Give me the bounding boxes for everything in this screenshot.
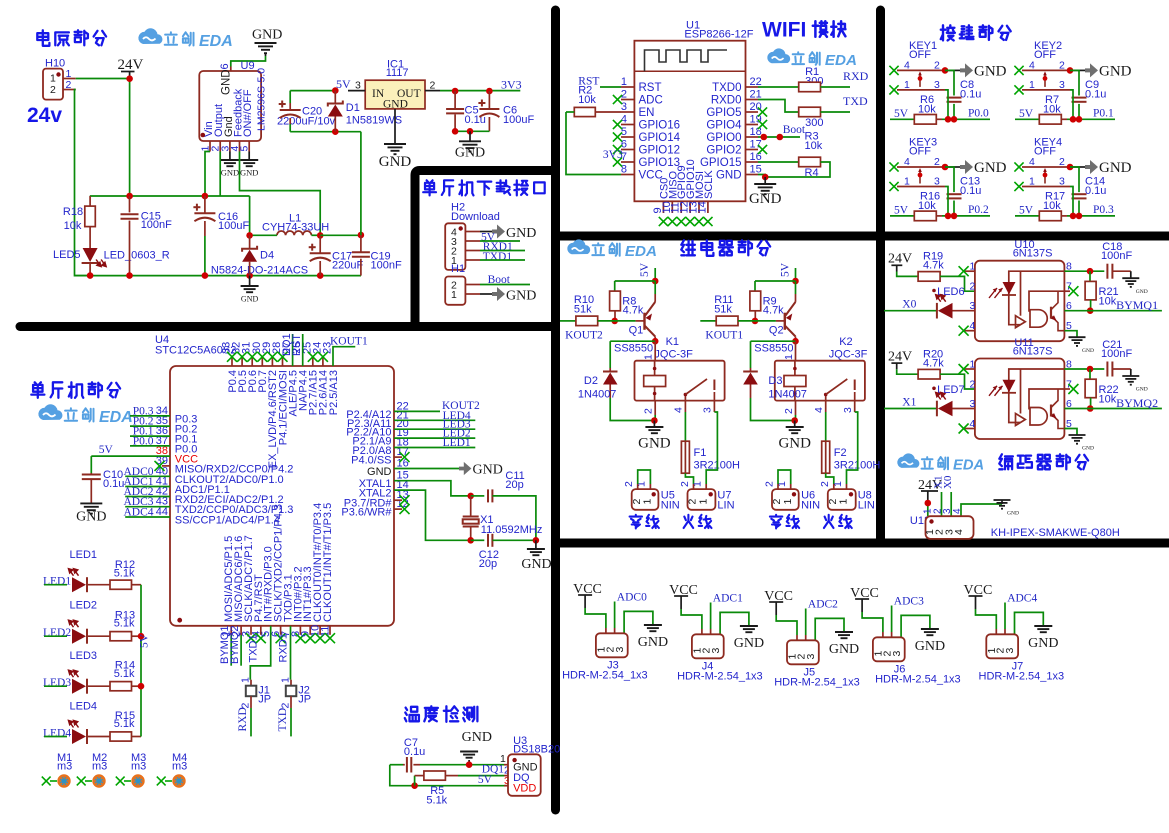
- svg-text:4: 4: [904, 59, 910, 71]
- wire DQ row: [458, 775, 504, 777]
- svg-text:LED1: LED1: [43, 576, 71, 588]
- svg-text:HDR-M-2.54_1x3: HDR-M-2.54_1x3: [677, 671, 763, 683]
- wire LED nets pins 21-18: [394, 419, 475, 421]
- svg-text:HDR-M-2.54_1x3: HDR-M-2.54_1x3: [875, 674, 961, 686]
- svg-text:K2: K2: [839, 336, 852, 348]
- wire VCC to J5: [776, 615, 797, 635]
- svg-text:3: 3: [842, 407, 854, 413]
- mcu ADC pin wires: [125, 475, 170, 477]
- svg-text:0.1u: 0.1u: [960, 185, 981, 197]
- svg-text:JQC-3F: JQC-3F: [829, 349, 868, 361]
- svg-text:4: 4: [953, 529, 965, 535]
- svg-text:LED3: LED3: [70, 650, 98, 662]
- svg-text:JP: JP: [298, 694, 311, 706]
- svg-text:6N137S: 6N137S: [1013, 345, 1053, 357]
- svg-text:TXD1: TXD1: [483, 251, 513, 263]
- svg-text:GND: GND: [974, 63, 1007, 79]
- svg-text:24V: 24V: [118, 57, 144, 73]
- svg-text:24V: 24V: [888, 252, 912, 267]
- label 火线 U7: [684, 515, 694, 528]
- no connect U10 pin1: [965, 270, 975, 272]
- svg-text:1: 1: [1029, 176, 1035, 188]
- svg-text:LED5: LED5: [53, 249, 81, 261]
- ground U10 pin5: [1064, 331, 1077, 337]
- svg-text:100nF: 100nF: [371, 260, 402, 272]
- ground arrow KEY3: [945, 166, 960, 168]
- svg-text:JQC-3F: JQC-3F: [654, 349, 693, 361]
- ground under C10: [80, 503, 102, 513]
- svg-text:F1: F1: [694, 447, 707, 459]
- wire Boot net: [758, 136, 800, 138]
- svg-text:10k: 10k: [64, 220, 82, 232]
- svg-text:GND: GND: [638, 436, 671, 452]
- svg-text:5V: 5V: [336, 77, 351, 91]
- svg-text:LED4: LED4: [43, 728, 71, 740]
- svg-text:GND: GND: [240, 168, 258, 178]
- svg-text:1: 1: [642, 499, 654, 505]
- svg-text:2: 2: [679, 481, 691, 487]
- svg-text:OFF: OFF: [909, 49, 931, 61]
- ground U9 pin3: [229, 152, 231, 160]
- svg-text:2: 2: [279, 703, 291, 709]
- svg-text:GND: GND: [1136, 289, 1148, 295]
- svg-text:ADC1: ADC1: [713, 593, 743, 605]
- svg-text:1: 1: [838, 499, 850, 505]
- svg-text:HDR-M-2.54_1x3: HDR-M-2.54_1x3: [774, 677, 860, 689]
- svg-text:3: 3: [934, 176, 940, 188]
- svg-text:5.1k: 5.1k: [426, 795, 447, 807]
- svg-text:ADC3: ADC3: [894, 596, 924, 608]
- svg-text:24V: 24V: [888, 349, 912, 364]
- svg-text:LED2: LED2: [70, 600, 98, 612]
- svg-text:20p: 20p: [479, 558, 497, 570]
- svg-text:WIFI: WIFI: [762, 19, 806, 42]
- label 零线 U6: [770, 515, 782, 529]
- svg-text:4: 4: [952, 508, 963, 514]
- ground under crystal: [535, 540, 537, 548]
- svg-text:4.7k: 4.7k: [623, 305, 644, 317]
- svg-text:GND: GND: [521, 557, 551, 572]
- svg-text:LED3: LED3: [43, 677, 71, 689]
- diode D3 1N4007: [750, 368, 752, 372]
- svg-text:14: 14: [696, 201, 708, 213]
- wire 3V3 net: [440, 90, 520, 92]
- wire U9 pin2 Output: [219, 152, 221, 197]
- section divider horizontal mid right: [556, 232, 1169, 241]
- svg-text:3: 3: [702, 407, 714, 413]
- svg-text:4: 4: [1029, 59, 1035, 71]
- svg-text:P2.5/A13: P2.5/A13: [328, 370, 340, 415]
- wire U12 pin4 to ground: [961, 504, 1002, 516]
- wire J3 ground: [624, 611, 653, 633]
- ground U9 pin5: [248, 152, 250, 160]
- svg-text:51k: 51k: [714, 304, 732, 316]
- connector J6 HDR-M-2.54_1x3: [873, 637, 905, 661]
- svg-text:P4.0/SS: P4.0/SS: [351, 455, 391, 467]
- svg-text:GPIO16: GPIO16: [639, 120, 681, 132]
- svg-text:D1: D1: [346, 102, 360, 114]
- svg-text:N5824-DO-214ACS: N5824-DO-214ACS: [211, 265, 308, 277]
- title 继电器部分: [681, 240, 695, 255]
- svg-text:K1: K1: [666, 336, 679, 348]
- svg-text:GPIO12: GPIO12: [639, 145, 681, 157]
- ground U11 pin5: [1064, 429, 1077, 435]
- svg-text:GND: GND: [915, 639, 945, 654]
- svg-text:LIN: LIN: [717, 500, 734, 512]
- wire DS18B20 gnd row: [420, 764, 504, 766]
- svg-text:m3: m3: [57, 761, 72, 773]
- svg-text:1: 1: [697, 499, 709, 505]
- wire U9 pin1 Vin: [205, 152, 210, 197]
- svg-text:EDA: EDA: [199, 33, 233, 50]
- svg-text:KOUT1: KOUT1: [330, 336, 368, 348]
- svg-text:2: 2: [783, 408, 795, 414]
- svg-text:RXD0: RXD0: [711, 95, 742, 107]
- svg-text:SCLK: SCLK: [703, 170, 715, 199]
- no connect U11 pin4: [965, 428, 975, 430]
- ground arrow KEY4: [1070, 166, 1085, 168]
- svg-text:RXD: RXD: [237, 707, 249, 731]
- relay K1 pin3 wire: [713, 401, 715, 412]
- logo lceda encoder section: [897, 453, 919, 467]
- svg-text:GND: GND: [749, 191, 782, 207]
- wire TXD from J2: [290, 708, 292, 736]
- svg-text:CLKOUT1/INT#/T1/P3.5: CLKOUT1/INT#/T1/P3.5: [322, 503, 334, 622]
- opto internals U11: [1009, 369, 1064, 426]
- ground U1: [764, 177, 766, 184]
- svg-text:LED1: LED1: [70, 549, 98, 561]
- wire C5 C6 ground: [455, 130, 489, 132]
- svg-text:11.0592MHz: 11.0592MHz: [481, 524, 543, 536]
- svg-text:KH-IPEX-SMAKWE-Q80H: KH-IPEX-SMAKWE-Q80H: [991, 527, 1120, 539]
- svg-text:2: 2: [430, 80, 436, 92]
- svg-text:1: 1: [279, 677, 291, 683]
- svg-text:X0: X0: [902, 299, 916, 311]
- svg-text:1: 1: [1029, 79, 1035, 91]
- svg-text:3: 3: [710, 648, 722, 654]
- svg-text:10k: 10k: [805, 140, 823, 152]
- svg-text:ADC4: ADC4: [1007, 593, 1037, 605]
- svg-text:0.1u: 0.1u: [404, 746, 425, 758]
- wire R3 to GND: [765, 162, 830, 177]
- svg-text:6N137S: 6N137S: [1013, 248, 1053, 260]
- ground under IC1: [394, 109, 396, 144]
- svg-text:2: 2: [643, 408, 655, 414]
- svg-text:SS8550: SS8550: [614, 343, 653, 355]
- svg-text:Q2: Q2: [769, 325, 784, 337]
- logo lceda mcu section: [38, 404, 62, 420]
- svg-text:GND: GND: [506, 226, 536, 241]
- svg-text:F2: F2: [834, 447, 847, 459]
- svg-text:10k: 10k: [578, 94, 596, 106]
- svg-text:5V: 5V: [1019, 205, 1034, 217]
- svg-text:100nF: 100nF: [1101, 250, 1132, 262]
- svg-text:GND: GND: [462, 730, 492, 745]
- svg-text:100uF: 100uF: [218, 220, 249, 232]
- wire U12 pin1 24V: [927, 500, 929, 516]
- svg-text:R18: R18: [63, 206, 83, 218]
- svg-text:GND: GND: [367, 466, 392, 478]
- svg-text:P0.0: P0.0: [133, 435, 154, 447]
- svg-text:EDA: EDA: [825, 52, 857, 69]
- wire C20 bottom to D1 anode: [290, 131, 361, 133]
- wire J5 ground: [815, 618, 844, 640]
- svg-text:1: 1: [904, 79, 910, 91]
- wire XTAL2 pin14: [394, 490, 471, 540]
- svg-text:4: 4: [673, 407, 685, 413]
- svg-text:6: 6: [219, 63, 231, 69]
- antenna trace inside U1: [634, 70, 745, 72]
- svg-text:GND: GND: [1136, 387, 1148, 393]
- svg-text:ADC2: ADC2: [808, 599, 838, 611]
- svg-text:1N4007: 1N4007: [578, 389, 617, 401]
- wire TXD1 to J1: [250, 626, 270, 680]
- wire VCC to J3: [585, 608, 606, 628]
- svg-text:4.7k: 4.7k: [763, 305, 784, 317]
- svg-text:GND: GND: [221, 168, 239, 178]
- connector J5 HDR-M-2.54_1x3: [787, 640, 819, 664]
- svg-text:ADC0: ADC0: [617, 592, 647, 604]
- svg-text:NIN: NIN: [661, 500, 680, 512]
- svg-text:D3: D3: [768, 375, 782, 387]
- svg-text:RST: RST: [291, 334, 303, 356]
- svg-text:3V3: 3V3: [603, 149, 623, 161]
- wire RST net: [600, 86, 621, 88]
- title 温度检测: [405, 707, 419, 722]
- svg-text:OFF: OFF: [1034, 146, 1056, 158]
- svg-text:GND: GND: [1082, 446, 1094, 452]
- wire BYMQ1 net: [1064, 310, 1162, 312]
- svg-text:Download: Download: [451, 211, 500, 223]
- svg-text:2: 2: [934, 59, 940, 71]
- wire KEY1 pin3 down: [945, 90, 948, 119]
- wire L1 right node to C19/D1: [320, 234, 361, 236]
- svg-text:GND: GND: [221, 69, 233, 95]
- wire BYMQ1 mcu pin1: [230, 626, 232, 635]
- title 按键部分: [941, 25, 955, 40]
- svg-text:3: 3: [614, 647, 626, 653]
- wire collector node Q1: [610, 340, 655, 342]
- svg-text:ON#/OFF: ON#/OFF: [242, 89, 254, 137]
- ground arrow KEY1: [945, 69, 960, 71]
- svg-text:GND: GND: [506, 289, 536, 304]
- wire VCC to J6: [862, 612, 883, 632]
- svg-text:GND: GND: [1099, 63, 1132, 79]
- svg-text:GND: GND: [778, 436, 811, 452]
- svg-text:Boot: Boot: [783, 124, 806, 136]
- U1 bottom pins: [662, 201, 664, 213]
- mcu left pin wires P0.x: [130, 415, 170, 417]
- svg-text:RXD: RXD: [843, 69, 869, 83]
- download box border: [415, 171, 555, 327]
- svg-text:3: 3: [1059, 79, 1065, 91]
- wire R2 to VCC 3V3: [566, 112, 621, 175]
- svg-text:4: 4: [813, 407, 825, 413]
- wire RXD from J1: [250, 708, 252, 736]
- svg-text:GPIO15: GPIO15: [700, 157, 742, 169]
- section divider vertical line 2: [876, 10, 885, 543]
- svg-text:EDA: EDA: [625, 243, 657, 260]
- svg-text:m3: m3: [92, 761, 107, 773]
- wire RXD1 to J2: [290, 626, 292, 680]
- svg-text:GND: GND: [383, 99, 408, 111]
- no connect U11 pin1: [965, 368, 975, 370]
- wire J7 ground: [1015, 612, 1044, 634]
- svg-text:GND: GND: [1099, 160, 1132, 176]
- svg-text:51k: 51k: [574, 304, 592, 316]
- svg-text:SS8550: SS8550: [754, 343, 793, 355]
- svg-text:3: 3: [934, 79, 940, 91]
- svg-text:2: 2: [66, 79, 72, 91]
- wire VCC to J7: [976, 609, 997, 629]
- svg-text:TXD: TXD: [277, 708, 289, 732]
- wire U9 pin4 Feedback: [240, 152, 321, 236]
- ground arrow KEY2: [1070, 69, 1085, 71]
- no connect U1 right pins: [758, 107, 767, 116]
- svg-text:KOUT2: KOUT2: [565, 330, 603, 342]
- svg-text:m3: m3: [172, 761, 187, 773]
- svg-text:Q1: Q1: [629, 325, 644, 337]
- svg-text:4: 4: [1029, 156, 1035, 168]
- svg-text:GND: GND: [829, 642, 859, 657]
- svg-text:1117: 1117: [386, 67, 409, 79]
- svg-text:X0: X0: [942, 475, 954, 489]
- ground arrow mcu pin 16: [394, 468, 459, 470]
- svg-text:ADC: ADC: [639, 95, 663, 107]
- wire U1 GND pin15: [758, 175, 765, 178]
- section divider vertical line 1: [551, 10, 560, 810]
- svg-text:1: 1: [904, 176, 910, 188]
- wire KOUT2 pin22: [394, 410, 440, 412]
- wire BYMQ2 mcu pin2: [240, 626, 242, 635]
- wire BYMQ2 net: [1064, 408, 1162, 410]
- svg-text:GND: GND: [638, 635, 668, 650]
- svg-text:BYMQ2: BYMQ2: [229, 625, 241, 664]
- svg-text:5V: 5V: [1019, 108, 1034, 120]
- wire 24V net: [76, 78, 130, 80]
- svg-text:BYMQ2: BYMQ2: [1116, 396, 1158, 410]
- no connect U1 pins: [613, 95, 622, 104]
- no connect U10 pin7: [1064, 290, 1070, 292]
- svg-text:ESP8266-12F: ESP8266-12F: [684, 29, 753, 41]
- svg-text:GPIO4: GPIO4: [706, 120, 742, 132]
- svg-text:5.1k: 5.1k: [114, 718, 135, 730]
- wire KEY2 pin3 down: [1070, 90, 1073, 119]
- no connect U10 pin4: [965, 330, 975, 332]
- relay K1 pin2 to ground: [654, 401, 656, 415]
- svg-text:24v: 24v: [27, 104, 62, 127]
- svg-text:TXD0: TXD0: [712, 82, 741, 94]
- wire C7 left to VDD row: [390, 765, 508, 786]
- svg-text:D4: D4: [260, 250, 274, 262]
- svg-text:1: 1: [451, 289, 457, 301]
- svg-text:2: 2: [623, 481, 635, 487]
- svg-text:5V: 5V: [139, 633, 151, 648]
- svg-text:0.1u: 0.1u: [1085, 89, 1106, 101]
- svg-text:GND: GND: [455, 146, 485, 161]
- logo lceda power section: [138, 28, 162, 44]
- no connect mcu pin 17: [394, 456, 402, 458]
- svg-text:100nF: 100nF: [141, 219, 172, 231]
- svg-text:RST: RST: [639, 82, 662, 94]
- label 火线 U8: [824, 515, 834, 528]
- svg-text:ADC4: ADC4: [123, 507, 153, 519]
- svg-text:P0.1: P0.1: [1093, 107, 1114, 119]
- svg-text:OFF: OFF: [1034, 49, 1056, 61]
- svg-text:LM2596S-5.0: LM2596S-5.0: [256, 68, 268, 131]
- svg-text:5V: 5V: [779, 262, 791, 277]
- wire XTAL1 pin15: [394, 481, 471, 496]
- svg-text:5.1k: 5.1k: [114, 618, 135, 630]
- svg-text:1: 1: [782, 499, 794, 505]
- connector J7 HDR-M-2.54_1x3: [986, 634, 1018, 658]
- svg-text:0.1u: 0.1u: [103, 478, 124, 490]
- wire U10 pin8: [1064, 270, 1104, 272]
- svg-text:20p: 20p: [505, 479, 523, 491]
- svg-text:RXD1: RXD1: [277, 633, 289, 662]
- svg-text:2: 2: [970, 379, 976, 391]
- svg-text:5: 5: [239, 146, 251, 152]
- svg-text:300: 300: [805, 117, 823, 129]
- svg-text:GPIO2: GPIO2: [706, 145, 741, 157]
- svg-text:GND: GND: [716, 170, 742, 182]
- wire collector node Q2: [751, 340, 796, 342]
- svg-text:100uF: 100uF: [503, 114, 534, 126]
- svg-text:5.1k: 5.1k: [114, 668, 135, 680]
- wire 5V rail LEDs: [140, 585, 142, 737]
- svg-text:LED2: LED2: [43, 627, 71, 639]
- section divider horizontal left: [20, 322, 556, 331]
- svg-text:2: 2: [50, 84, 56, 96]
- logo lceda wifi section: [767, 48, 790, 63]
- svg-text:P0.2: P0.2: [968, 204, 989, 216]
- svg-text:GND: GND: [1082, 348, 1094, 354]
- svg-text:GPIO13: GPIO13: [639, 157, 681, 169]
- svg-text:LED4: LED4: [70, 700, 98, 712]
- svg-text:100nF: 100nF: [1101, 348, 1132, 360]
- svg-text:4.7k: 4.7k: [923, 260, 944, 272]
- svg-text:GPIO14: GPIO14: [639, 132, 681, 144]
- svg-text:P0.3: P0.3: [1093, 204, 1114, 216]
- title 单片机下载接口: [423, 180, 436, 195]
- svg-text:5V: 5V: [478, 774, 493, 786]
- svg-text:GND: GND: [1007, 511, 1019, 517]
- svg-text:EN: EN: [639, 107, 655, 119]
- wire J4 ground: [720, 612, 749, 634]
- svg-text:TXD: TXD: [843, 94, 868, 108]
- svg-text:2: 2: [763, 481, 775, 487]
- relay K2 pin2 to ground: [795, 401, 797, 415]
- ground under C5 C6: [469, 131, 471, 140]
- svg-text:X1: X1: [902, 396, 916, 408]
- no connect mcu pin 39: [162, 465, 170, 467]
- svg-text:5.1k: 5.1k: [114, 567, 135, 579]
- svg-text:0.1u: 0.1u: [960, 89, 981, 101]
- wire RST mcu top: [302, 334, 304, 366]
- svg-text:1: 1: [783, 354, 795, 360]
- svg-text:1: 1: [239, 677, 251, 683]
- svg-text:4.7k: 4.7k: [923, 357, 944, 369]
- svg-text:2: 2: [934, 156, 940, 168]
- wire J6 ground: [901, 615, 930, 637]
- svg-text:5V: 5V: [639, 262, 651, 277]
- wire 24V rail horizontal: [90, 195, 250, 197]
- svg-text:2: 2: [819, 481, 831, 487]
- svg-text:VDD: VDD: [513, 782, 536, 794]
- svg-text:LED_0603_R: LED_0603_R: [104, 250, 170, 262]
- svg-text:EDA: EDA: [99, 409, 133, 426]
- wire KEY3 pin3 down: [945, 187, 948, 216]
